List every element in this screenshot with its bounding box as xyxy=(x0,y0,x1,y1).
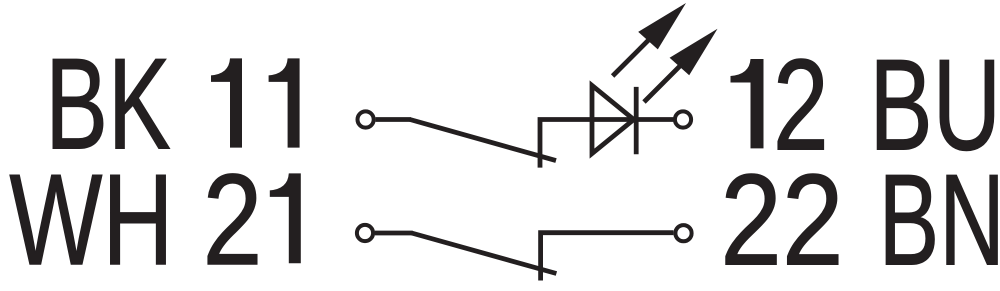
switch lever contact 11-12 xyxy=(410,120,556,161)
LED emission arrow 1 head xyxy=(638,3,686,49)
fixed contact bar and wire to terminal 22 xyxy=(541,233,674,281)
wire stub from terminal 21 xyxy=(375,231,413,236)
svg-text:22: 22 xyxy=(720,147,843,291)
LED cathode bar xyxy=(634,87,639,154)
wire stub from terminal 11 xyxy=(376,117,411,122)
terminal 21 circle xyxy=(357,225,373,241)
LED emission arrow 2 shaft xyxy=(644,64,682,102)
LED diode triangle (anode) xyxy=(592,85,634,153)
fixed contact bar and wire to LED / terminal 12 xyxy=(540,120,673,168)
terminal 12 circle xyxy=(675,111,691,127)
LED emission arrow 1 shaft xyxy=(613,38,651,76)
svg-text:BN: BN xyxy=(879,147,1000,291)
LED emission arrow 2 head xyxy=(670,29,718,76)
digit 1 of "21" xyxy=(270,173,301,263)
terminal 11 circle xyxy=(358,111,374,127)
label 12 BU (terminals 12, blue wire): digit 1 xyxy=(731,59,764,148)
switch lever contact 21-22 xyxy=(412,233,557,274)
terminal 22 circle xyxy=(675,225,691,241)
digit 1 of "11" (second) xyxy=(269,58,300,147)
digit 1 of "11" xyxy=(211,58,242,147)
svg-text:2: 2 xyxy=(203,148,263,291)
svg-text:WH: WH xyxy=(9,148,173,291)
